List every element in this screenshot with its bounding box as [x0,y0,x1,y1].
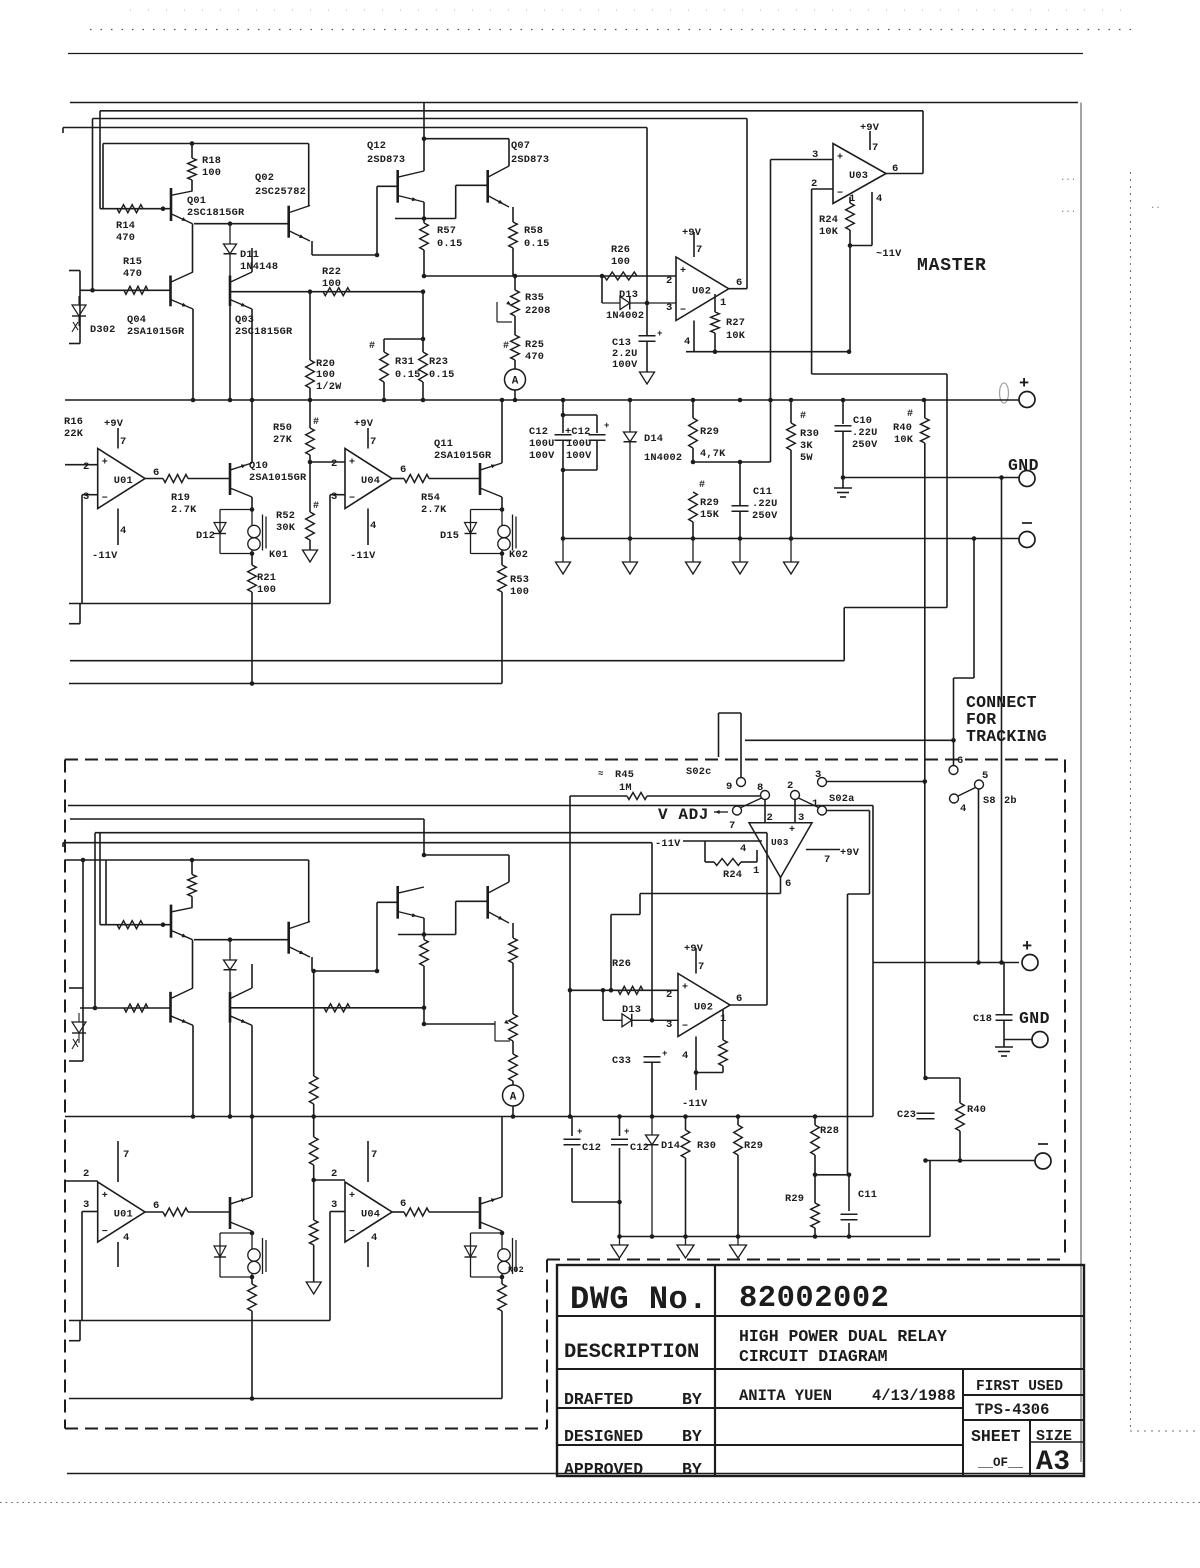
svg-text:100: 100 [202,167,221,179]
svg-text:R31: R31 [395,356,414,368]
svg-text:+C12: +C12 [565,426,591,438]
wire emitter link row y218 [395,218,456,220]
capacitor C12 lower right [619,1117,621,1137]
svg-text:R29: R29 [700,497,719,509]
wire Q10 lower emitter [251,1231,253,1233]
U04 pin3 input wire [330,494,345,496]
resistor R22 [323,288,350,296]
svg-text:5: 5 [982,770,988,782]
svg-text:+: + [837,153,843,164]
svg-text:BY: BY [682,1427,702,1446]
svg-text:#: # [699,480,705,491]
svg-text:1M: 1M [619,782,632,794]
svg-text:4: 4 [960,803,966,815]
svg-text:+: + [682,983,688,994]
svg-text:#: # [907,409,913,420]
U02 output pin6 [729,288,747,290]
svg-text:D14: D14 [644,433,663,445]
wire tracking row y661 [70,660,844,662]
op-amp U01 lower [98,1182,145,1242]
svg-text:DRAFTED: DRAFTED [564,1390,633,1409]
svg-text:4: 4 [876,193,882,205]
svg-text:R52: R52 [276,510,295,522]
transistor Q04 [169,276,172,307]
resistor R24 lower [704,841,706,862]
svg-text:2: 2 [666,275,672,287]
wire Q12 collector vertical [423,139,425,171]
terminal gnd lower [1032,1032,1048,1048]
svg-text:BY: BY [682,1390,702,1409]
wire Q10 emitter to relay [251,497,253,510]
switch S02c terminal 8 [761,791,770,800]
resistor R35 potentiometer [514,276,516,290]
wire gnd lower row [1004,1039,1032,1041]
U02 lower output [730,1004,767,1006]
lower diode D302 [72,1022,86,1033]
svg-text:7: 7 [370,436,376,448]
svg-text:S8: S8 [983,795,996,807]
wire Q12 emitter drop [423,202,425,219]
svg-text:+: + [1022,938,1032,957]
svg-text:10K: 10K [894,434,914,446]
svg-text:+: + [789,825,795,836]
wire Q03 emitter to bus [251,309,253,400]
svg-text:6: 6 [957,755,963,767]
resistor R19 lower [163,1208,188,1216]
wire lower R29-C11 row [815,1174,849,1176]
svg-text:DESIGNED: DESIGNED [564,1427,643,1446]
diode D14 [629,400,631,432]
U03 lower output staircase [780,878,782,894]
title block outer frame [557,1265,1084,1476]
svg-text:6: 6 [736,993,742,1005]
wire U04 pin3 feedback vertical [329,495,331,604]
U04 lower pin7 [367,1141,369,1182]
wire tracking row y374 [812,373,947,375]
wire lower to Q07 base [455,901,457,934]
wire U03 pin2 long vertical [811,189,813,374]
svg-text:2SC1815GR: 2SC1815GR [187,207,245,219]
wire W3 [93,118,748,120]
svg-text:SHEET: SHEET [971,1427,1021,1446]
svg-text:#: # [313,501,319,512]
svg-text:1/2W: 1/2W [316,381,342,393]
svg-text:U01: U01 [114,1209,133,1221]
switch S02a terminal 1 [818,806,827,815]
svg-text:27K: 27K [273,434,293,446]
svg-text:3: 3 [666,1019,672,1031]
svg-text:R16: R16 [64,416,83,428]
svg-text:S02a: S02a [829,793,855,805]
title block column divider [714,1265,716,1476]
svg-text:10K: 10K [726,330,746,342]
svg-text:C18: C18 [973,1013,992,1025]
svg-text:2: 2 [767,812,773,824]
wire terminal3 to R40 line [827,781,925,783]
svg-text:D13: D13 [622,1004,641,1016]
svg-text:R19: R19 [171,492,190,504]
svg-text:≈: ≈ [598,769,603,779]
svg-text:R54: R54 [421,492,440,504]
U01 lower output [145,1211,163,1213]
wire R15 input line [80,289,171,291]
svg-text:U02: U02 [694,1002,713,1014]
ground below lower R52b [306,1282,321,1294]
svg-text:4,7K: 4,7K [700,448,726,460]
svg-text:U01: U01 [114,475,133,487]
svg-text:1: 1 [753,865,759,877]
capacitor C12 lower left [571,1117,573,1137]
wire Q01 emitter row [194,223,289,225]
svg-text:R26: R26 [611,244,630,256]
svg-text:TPS-4306: TPS-4306 [975,1401,1049,1419]
svg-text:R58: R58 [524,225,543,237]
svg-text:S02c: S02c [686,766,712,778]
lower connector bracket [82,988,84,1061]
svg-text:+: + [349,458,355,469]
resistor R18 [191,144,193,159]
resistor R26 lower [618,986,643,994]
svg-text:1: 1 [720,297,726,309]
wire Q10 lower collector [251,1117,253,1198]
svg-text:A3: A3 [1036,1447,1071,1478]
U04 pin4 [367,509,369,546]
switch S02c arm 8-7 [741,798,762,808]
svg-text:82002002: 82002002 [739,1282,889,1316]
wire lower plus row [873,962,1019,964]
svg-text:C10: C10 [853,415,872,427]
svg-text:C23: C23 [897,1109,916,1121]
U01 lower pin3 wire [82,1211,98,1213]
resistor R52 [309,462,311,512]
svg-text:250V: 250V [852,439,878,451]
svg-text:.22U: .22U [752,498,778,510]
wire lower minus row [926,1160,1036,1162]
resistor R30 lower [685,1117,687,1131]
diode D302 [72,305,86,316]
svg-text:R21: R21 [257,572,276,584]
wire Q11 collector to bus [501,400,503,463]
svg-text:R24: R24 [723,869,742,881]
svg-text:U04: U04 [361,475,380,487]
svg-text:D12: D12 [196,530,215,542]
svg-text:TRACKING: TRACKING [966,727,1047,746]
svg-text:+: + [1019,375,1029,394]
svg-text:3: 3 [666,302,672,314]
svg-text:R30: R30 [800,428,819,440]
resistor R23 [422,292,424,352]
wire Q04 emitter to bus [192,309,194,400]
svg-text:DESCRIPTION: DESCRIPTION [564,1341,699,1364]
wire lower feedback row y1398 [69,1398,502,1400]
svg-text:7: 7 [698,961,704,973]
diode D11 [229,224,231,244]
svg-text:...: ... [1060,173,1076,183]
U01 lower pin4 [117,1242,119,1267]
dashed border lower block [65,759,1065,761]
svg-text:4: 4 [370,520,376,532]
svg-text:22K: 22K [64,428,84,440]
svg-text:−: − [102,494,108,505]
svg-text:D15: D15 [440,530,459,542]
svg-text:3: 3 [331,491,337,503]
svg-text:C11: C11 [753,486,772,498]
svg-text:4: 4 [740,843,746,855]
wire lower Q12 base [377,901,398,903]
svg-text:470: 470 [123,268,142,280]
wire R53 drop [501,592,503,684]
op-amp U02 [676,257,729,321]
wire Q03 base bar drop to bus [229,306,231,400]
wire W4 [63,127,647,129]
wire R21 lower drop [251,1311,253,1399]
svg-text:4/13/1988: 4/13/1988 [872,1387,956,1405]
svg-text:GND: GND [1008,456,1039,475]
svg-text:A: A [510,1092,517,1104]
wire R57-R58 bottom row [424,275,602,277]
resistor R28 lower [814,1117,816,1126]
lower transistor Q01 [170,905,173,938]
resistor lower R52 [313,1117,315,1138]
capacitor C12 right loop [563,414,597,416]
wire Q03 collector stub [251,248,253,272]
svg-text:R14: R14 [116,220,135,232]
wire lower Q02 emitter row [311,957,313,971]
wire lower Q03 collector stub [251,964,253,988]
svg-text:15K: 15K [700,509,720,521]
svg-text:APPROVED: APPROVED [564,1460,643,1479]
wire terminal1 chain to C11 lower [827,810,870,812]
wire lower vertical x100 [99,833,101,925]
svg-text:SIZE: SIZE [1036,1428,1072,1445]
op-amp U04 [345,449,392,509]
resistor R57 [423,219,425,224]
svg-text:R24: R24 [819,214,838,226]
resistor R29 lower [811,1203,820,1228]
ground stubs on minus rail [561,536,566,541]
resistor R19 [163,475,188,483]
svg-text:3K: 3K [800,440,813,452]
U01 pin3 input wire [82,494,98,496]
wire vertical x424 from W1 [423,103,425,139]
svg-text:100V: 100V [566,450,592,462]
wire Q11 emitter to relay [501,497,503,510]
svg-text:8: 8 [757,782,763,794]
svg-text:GND: GND [1019,1009,1050,1028]
svg-text:C12: C12 [529,426,548,438]
wire W2 [100,110,923,112]
capacitor C12 left [562,400,564,433]
svg-text:2: 2 [331,458,337,470]
wire lower W4 [63,842,652,844]
svg-text:+9V: +9V [682,227,702,239]
svg-text:D13: D13 [619,289,638,301]
svg-text:2b: 2b [1004,795,1017,807]
capacitor C11 [739,462,741,505]
svg-text:R23: R23 [429,356,448,368]
wire minus node drop [973,539,975,679]
resistor R29b lower [737,1117,739,1126]
svg-text:10K: 10K [819,226,839,238]
switch S8 terminal 4 [950,794,959,803]
svg-text:R27: R27 [726,317,745,329]
switch S02a terminal 3 [818,778,827,787]
transistor Q11 lower [479,1197,482,1229]
svg-text:D14: D14 [661,1140,680,1152]
svg-text:~11V: ~11V [876,248,902,260]
U02 pin4 feedback row [693,321,695,352]
svg-text:4: 4 [371,1232,377,1244]
svg-text:+: + [577,1127,582,1137]
switch S02a terminal 2 [791,791,800,800]
left connector bracket [79,271,81,344]
U01 lower pin2 wire [65,1180,98,1182]
svg-text:0.15: 0.15 [395,369,421,381]
tps row line [963,1419,1084,1421]
transistor Q01 [170,188,173,221]
svg-text:R22: R22 [322,266,341,278]
resistor lower R15 [124,1004,148,1012]
svg-text:+9V: +9V [860,122,880,134]
svg-text:C12: C12 [630,1142,649,1154]
wire vertical x92.5 [92,119,94,291]
wire U01 lower pin3 vertical [81,1212,83,1321]
wire lower emitter link y934 [398,934,456,936]
resistor R26 [604,272,637,280]
svg-text:3: 3 [83,1199,89,1211]
svg-text:3: 3 [83,491,89,503]
ground below R52 [303,550,318,562]
svg-text:4: 4 [123,1232,129,1244]
svg-text:1N4002: 1N4002 [606,310,644,322]
relay K01 [220,509,252,511]
wire R22 row [230,291,423,293]
svg-text:DWG No.: DWG No. [570,1281,708,1318]
wire 9-terminal riser [740,713,742,778]
svg-text:FIRST USED: FIRST USED [976,1379,1063,1395]
svg-text:Q01: Q01 [187,195,206,207]
svg-text:MASTER: MASTER [917,256,987,276]
svg-text:#: # [369,341,375,352]
svg-text:100V: 100V [529,450,555,462]
svg-text:100: 100 [322,278,341,290]
capacitor C18 [996,1014,1013,1016]
svg-text:7: 7 [371,1149,377,1161]
svg-text:2SD873: 2SD873 [511,154,549,166]
svg-text:U02: U02 [692,285,711,297]
svg-text:−: − [102,1227,108,1238]
wire lower collector link [424,854,509,856]
svg-text:0.15: 0.15 [524,238,550,250]
wire lower feedback row y1320 [69,1320,330,1322]
svg-text:2.7K: 2.7K [421,504,447,516]
resistor R21 [251,554,253,566]
resistor R29 upper [692,400,694,418]
wire tracking staircase [843,608,845,661]
svg-text:100U: 100U [529,438,555,450]
wire lower R57-R58 bottom row [424,1023,495,1025]
ground arrows lower rail [619,1237,621,1246]
svg-text:2SC1815GR: 2SC1815GR [235,326,293,338]
wire vertical x770 bus to R29 row [770,400,772,462]
title block row line 4 [557,1444,963,1446]
U01 pin4 [117,509,119,546]
svg-text:U03: U03 [849,170,868,182]
wire lower Q04 collector stub [192,940,194,988]
resistor R25 [514,316,516,335]
wire vertical x103 [102,144,104,209]
wire lower R15 row [80,1007,171,1009]
ammeter A [505,369,526,390]
wire lower U02 output feedback [766,833,768,1005]
svg-text:250V: 250V [752,510,778,522]
svg-text:100: 100 [257,584,276,596]
terminal plus lower [1022,955,1038,971]
U03 pin4 [871,192,873,246]
ground below C13 [640,372,655,384]
U04 output pin6 [392,478,404,480]
U01 output pin6 [145,478,163,480]
svg-text:Q02: Q02 [255,172,274,184]
wire lower vertical x83 [82,860,84,988]
svg-text:−: − [755,829,760,839]
U03 lower pin3 [794,800,796,823]
resistor R58 [509,222,518,248]
wire R14 input line [100,208,171,210]
wire lower U04 pin2 input [314,1179,345,1181]
svg-text:3: 3 [798,812,804,824]
svg-text:100U: 100U [566,438,592,450]
diode D14 lower [651,1117,653,1136]
wire Q02 emitter row [311,241,313,255]
svg-text:100: 100 [611,256,630,268]
svg-text:100: 100 [510,586,529,598]
resistor R40 [924,400,926,418]
resistor R54 lower [404,1208,429,1216]
svg-text:2208: 2208 [525,305,551,317]
svg-text:30K: 30K [276,522,296,534]
wire R40 long vertical to lower block [924,443,926,1078]
svg-text:6: 6 [785,878,791,890]
svg-text:9: 9 [726,781,732,793]
svg-text:+: + [680,266,686,277]
svg-text:7: 7 [696,244,702,256]
terminal plus top [1019,392,1035,408]
transistor Q10 lower [229,1197,232,1229]
U02 pin7 +9V [693,232,695,257]
svg-text:ANITA YUEN: ANITA YUEN [739,1387,832,1405]
title block row line 1 [557,1315,1084,1317]
svg-text:−: − [349,494,355,505]
svg-text:Q11: Q11 [434,438,453,450]
wire W5 [103,143,309,145]
resistor R30 [790,400,792,423]
U03 lower pin4 -11V [683,840,762,842]
svg-text:2: 2 [83,461,89,473]
capacitor C13 [646,303,648,335]
transistor Q10 [229,463,232,495]
resistor lower R20 [313,971,315,1076]
earth ground below C18 [995,1046,1013,1048]
wire lower vertical x424 corner [423,819,425,855]
op-amp U01 [98,449,145,509]
svg-text:−: − [680,306,686,317]
wire Q11 lower collector [501,1117,503,1198]
first used column divider [962,1369,964,1476]
svg-text:R40: R40 [967,1104,986,1116]
svg-text:Q04: Q04 [127,314,146,326]
ghost zero artifact [1000,383,1009,403]
